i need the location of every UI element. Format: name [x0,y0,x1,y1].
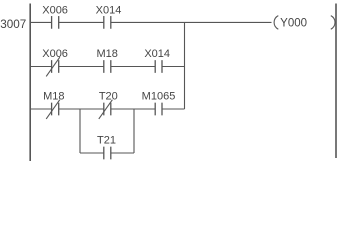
svg-text:M18: M18 [43,91,64,103]
wire branch to T21 [80,152,104,154]
contact X014 rung1 [96,5,122,29]
wire rung2 rail to X006 [30,66,51,68]
wire rung2 X014 to join [162,66,185,68]
wire rung3 rail to M18 [30,108,51,110]
svg-text:3007: 3007 [0,18,26,31]
wire rung3 T20 to M1065 [111,108,155,110]
wire rung1 rail to X006 [30,21,51,23]
contact M18 NC rung3 [43,91,64,119]
join vertical wire [184,22,186,109]
contact M18 rung2 [96,48,117,73]
svg-text:T20: T20 [99,91,118,103]
right power rail [335,4,337,159]
branch left leg wire [79,109,81,153]
svg-text:X006: X006 [42,5,68,17]
svg-text:X014: X014 [96,5,122,17]
branch right leg wire [133,109,135,153]
wire rung3 M18 to T20 [59,108,104,110]
wire rung2 X006 to M18 [59,66,104,68]
contact X006 NC rung2 [42,48,68,76]
contact X014 rung2 [144,48,170,73]
wire rung1 X006 to X014 [59,21,104,23]
coil Y000 [274,16,335,30]
svg-text:M1065: M1065 [142,91,176,103]
svg-text:Y000: Y000 [280,18,307,30]
contact X006 rung1 [42,5,68,29]
svg-text:T21: T21 [97,135,116,147]
svg-text:X014: X014 [144,48,170,60]
wire rung1 X014 to coil [111,21,272,23]
svg-text:X006: X006 [42,48,68,60]
left power rail [29,4,31,162]
wire rung2 M18 to X014 [111,66,155,68]
contact M1065 rung3 [142,91,176,116]
wire rung3 M1065 to join [162,108,185,110]
wire T21 to branch right leg [111,152,134,154]
contact T20 NC rung3 [99,91,118,119]
contact T21 branch [97,135,116,160]
svg-text:M18: M18 [96,48,117,60]
